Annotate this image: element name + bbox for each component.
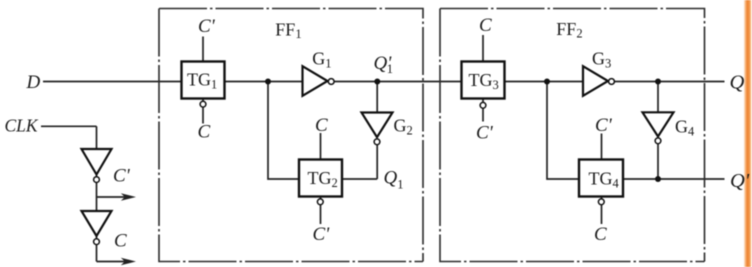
svg-text:CLK: CLK bbox=[5, 116, 39, 136]
svg-text:C: C bbox=[594, 224, 607, 245]
svg-text:C: C bbox=[114, 230, 127, 251]
svg-text:C': C' bbox=[198, 16, 216, 37]
svg-text:Q': Q' bbox=[730, 170, 750, 192]
svg-text:C': C' bbox=[476, 123, 494, 144]
svg-text:C': C' bbox=[313, 224, 331, 245]
svg-text:C': C' bbox=[595, 115, 613, 136]
svg-text:Q'1: Q'1 bbox=[374, 53, 394, 76]
svg-text:C: C bbox=[198, 122, 211, 143]
svg-text:C: C bbox=[315, 115, 328, 136]
svg-text:C': C' bbox=[113, 165, 131, 186]
svg-text:D: D bbox=[26, 72, 41, 93]
svg-text:Q: Q bbox=[730, 72, 745, 94]
svg-text:C: C bbox=[479, 15, 492, 36]
